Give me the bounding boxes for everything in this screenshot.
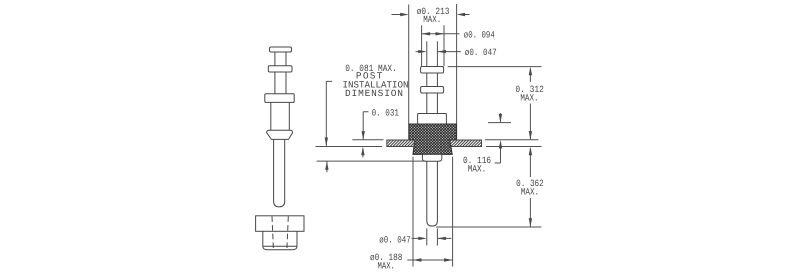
- ext line pin tip right: [436, 226, 542, 228]
- dim dia 0.047 bottom line: [412, 237, 452, 239]
- pin upper post: [275, 52, 286, 66]
- ext lines dia 0.047 bottom below pin tip: [427, 229, 438, 246]
- bushing flange: [256, 216, 304, 232]
- arrowhead 0.188 left: [413, 258, 422, 261]
- pin post below washer: [427, 93, 438, 114]
- arrowhead 0.081 up: [325, 161, 328, 170]
- svg-text:MAX.: MAX.: [520, 92, 538, 103]
- bushing hidden bore lines: [272, 216, 288, 249]
- dim dia 0.213 arrows: [392, 14, 470, 16]
- arrowhead 0.116 up: [499, 140, 502, 149]
- dim dia 0.047 top line: [416, 51, 461, 53]
- arrowhead 0.188 right: [444, 258, 453, 261]
- dim 0.362 line: [529, 148, 531, 226]
- pin body block (section): [418, 114, 447, 125]
- ext line shoulder bottom left: [317, 160, 426, 162]
- svg-text:MAX.: MAX.: [423, 14, 441, 25]
- pin head cap (section): [421, 67, 444, 74]
- arrowhead 0.031 up: [361, 147, 364, 156]
- arrowhead 0.362 up: [529, 147, 532, 156]
- dim dia 0.094 line: [422, 33, 460, 35]
- pin body block: [265, 94, 294, 103]
- pin shank with round tip (section): [427, 161, 438, 226]
- arrowhead 0.047 top left: [418, 50, 427, 53]
- ext lines dia 0.047 top: [427, 41, 438, 66]
- arrowhead 0.047 bottom right: [437, 237, 446, 240]
- ext line panel top left: [352, 139, 383, 141]
- pin washer flange (section): [421, 87, 444, 94]
- dim 0.116 arrows: [495, 113, 501, 163]
- ext lines dia 0.094: [422, 25, 444, 66]
- pin tapered shoulder: [267, 130, 293, 139]
- arrowhead 0.213 left: [400, 13, 409, 16]
- svg-text:ø0. 047: ø0. 047: [379, 234, 410, 245]
- arrowhead 0.116 down: [499, 114, 502, 123]
- ext line washer top right: [448, 66, 542, 68]
- arrowhead 0.047 bottom left: [418, 237, 427, 240]
- ext line bushing flange top right: [488, 122, 511, 124]
- mounting panel left segment: [387, 140, 415, 147]
- svg-text:ø0. 094: ø0. 094: [464, 30, 495, 41]
- dim 0.031 leader: [363, 112, 369, 158]
- ext line panel top right: [485, 139, 539, 141]
- mounting panel right segment: [450, 140, 482, 147]
- pin shoulder protruding below bushing: [422, 154, 441, 161]
- ext line panel bottom right: [486, 146, 542, 148]
- arrowhead 0.094 right: [436, 32, 445, 35]
- arrowhead 0.213 right: [457, 13, 466, 16]
- svg-text:MAX.: MAX.: [468, 164, 486, 175]
- pin shank with round tip: [274, 139, 285, 207]
- svg-text:DIMENSION: DIMENSION: [345, 88, 403, 99]
- dim dia 0.188 line: [407, 259, 452, 261]
- dim 0.081 leader: [326, 81, 332, 172]
- arrowhead 0.312 up: [529, 67, 532, 76]
- pin post between flanges: [427, 73, 438, 87]
- arrowhead 0.047 top right: [437, 50, 446, 53]
- svg-text:0. 031: 0. 031: [372, 108, 400, 119]
- ext line panel bottom left: [316, 146, 383, 148]
- bushing body with rounded chamfer base: [263, 231, 297, 250]
- bushing base step line: [263, 245, 297, 247]
- svg-text:MAX.: MAX.: [521, 187, 539, 198]
- arrowhead 0.081 down: [325, 138, 328, 147]
- pin washer flange: [268, 66, 292, 72]
- svg-text:ø0. 047: ø0. 047: [465, 47, 497, 58]
- ext lines dia 0.213: [409, 4, 457, 124]
- svg-text:MAX.: MAX.: [378, 260, 395, 271]
- arrowhead 0.362 down: [529, 218, 532, 227]
- arrowhead 0.312 down: [529, 131, 532, 140]
- arrowhead 0.031 down: [362, 131, 365, 140]
- pin lower post: [275, 72, 286, 94]
- pin mid cylinder: [271, 102, 290, 130]
- pin head cap: [270, 47, 292, 52]
- bushing flange and flare (cross-hatched rubber section): [409, 124, 457, 154]
- dim 0.312 line: [529, 68, 531, 139]
- arrowhead 0.094 left: [422, 32, 431, 35]
- ext lines dia 0.188: [413, 157, 453, 267]
